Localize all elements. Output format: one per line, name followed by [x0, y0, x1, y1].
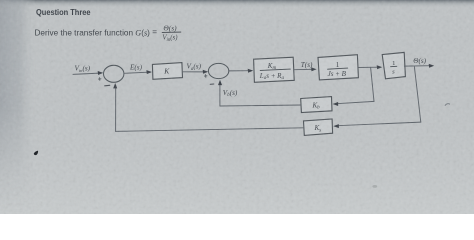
small gray mark right-middle: [445, 104, 449, 106]
block Ks sensor: [304, 119, 333, 135]
plus sign at S2 input: [204, 75, 207, 78]
summing junction S1: [104, 65, 124, 82]
arrowhead into integrator: [377, 65, 383, 69]
minus sign at S2 feedback input: [210, 83, 214, 85]
wire Kb out to S2 corner: [220, 105, 301, 106]
arrowhead into motor block: [248, 69, 254, 73]
summing junction S2: [208, 63, 228, 78]
equation fraction bar: [162, 31, 181, 33]
arrowhead into S1: [98, 71, 104, 75]
wire input to summing junction S1: [73, 73, 100, 74]
block G1 fraction bar: [260, 69, 290, 70]
wire Kb tap horizontal into Kb: [337, 101, 375, 103]
wire Ks tap vertical: [414, 66, 421, 122]
block integrator 1/s: [382, 52, 405, 78]
block Kb back-emf: [301, 97, 332, 113]
arrowhead output: [429, 64, 435, 68]
wire S2 to motor block: [229, 70, 250, 72]
arrowhead into Kb: [333, 102, 339, 106]
block K (amplifier): [152, 63, 182, 80]
block G1 motor Km/(La s + Ra): [254, 57, 295, 82]
dirt fleck bottom-left: [34, 151, 38, 156]
arrowhead up into S1: [113, 83, 117, 88]
minus sign at S1 feedback input: [105, 84, 110, 87]
wire vertical up to S1: [115, 85, 117, 131]
arrowhead into load block: [311, 67, 317, 71]
arrowhead into Ks: [333, 124, 339, 128]
arrowhead into K: [146, 70, 152, 74]
plus sign at S1 input: [98, 78, 101, 81]
arrowhead up into S2: [218, 80, 222, 85]
wire Ks tap horizontal into Ks: [337, 122, 421, 126]
wire load block to integrator: [358, 66, 378, 68]
arrowhead into S2: [203, 70, 209, 74]
faint speck bottom-right: [372, 185, 377, 188]
wire motor block to load block: [294, 68, 313, 70]
integrator fraction bar: [391, 65, 397, 67]
block G2 fraction bar: [328, 68, 348, 69]
wire S1 to block K: [124, 72, 148, 73]
wire integrator to output: [404, 65, 430, 67]
block G2 load 1/(Js+B): [318, 55, 358, 80]
wire Vb vertical up to S2: [219, 83, 221, 107]
wire Kb tap vertical: [371, 67, 374, 101]
wire K to summing junction S2: [183, 71, 204, 73]
wire Ks out to S1 corner: [116, 128, 304, 132]
